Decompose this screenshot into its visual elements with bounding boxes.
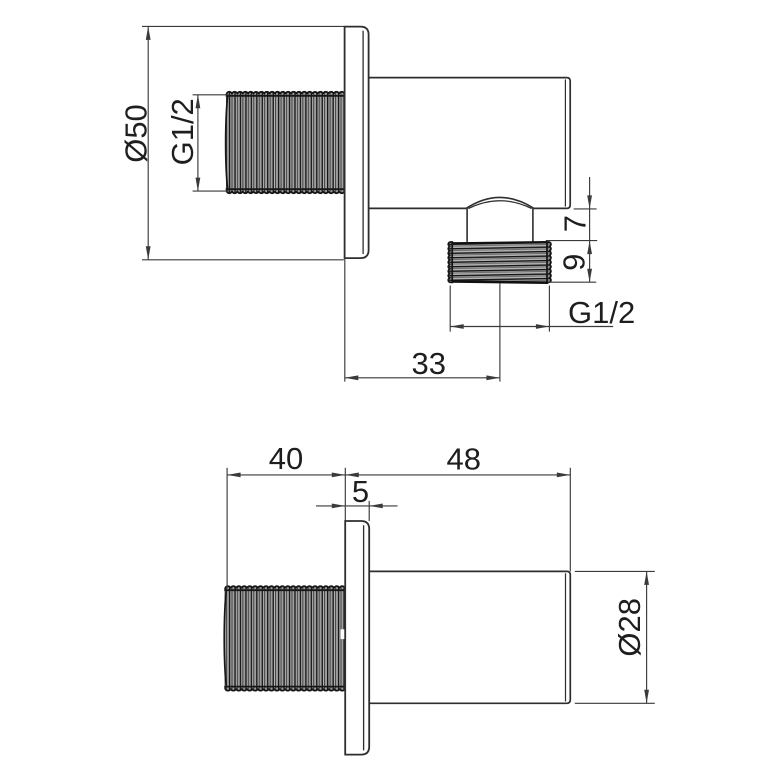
svg-text:G1/2: G1/2	[165, 98, 200, 165]
svg-text:Ø50: Ø50	[118, 104, 153, 163]
dimension G1/2 (inlet thread size)	[165, 95, 229, 191]
svg-text:33: 33	[411, 346, 445, 381]
dimension 9 (outlet thread length)	[548, 254, 596, 283]
body cylinder (top view)	[369, 78, 571, 209]
svg-text:48: 48	[447, 442, 481, 477]
outlet neck and back-curve (top view)	[467, 197, 534, 242]
svg-text:40: 40	[269, 441, 303, 476]
inlet threaded pipe (bottom view)	[224, 586, 345, 690]
dimension G1/2 (outlet thread size)	[450, 286, 635, 332]
dimension Ø28 (body diameter)	[575, 571, 655, 703]
svg-text:5: 5	[352, 474, 369, 509]
dimension 48 (body length)	[345, 442, 570, 572]
dimension 7 (neck height)	[546, 177, 597, 282]
wall flange plate (bottom view)	[345, 521, 369, 755]
inlet threaded pipe G1/2 (top view)	[226, 92, 345, 193]
dimension 5 (flange thickness)	[316, 474, 398, 521]
dimension 40 (thread length)	[227, 441, 345, 589]
svg-text:G1/2: G1/2	[568, 295, 635, 330]
outlet threaded stub G1/2 (top view)	[448, 242, 551, 283]
svg-text:7: 7	[557, 215, 592, 232]
svg-text:9: 9	[557, 254, 592, 271]
dimension Ø50 (flange diameter)	[118, 26, 344, 259]
svg-text:Ø28: Ø28	[612, 598, 647, 657]
dimension 33 (wall face to outlet centre)	[345, 258, 500, 382]
body cylinder Ø28 (bottom view)	[369, 571, 570, 703]
wall flange plate Ø50 (top view)	[345, 27, 369, 259]
